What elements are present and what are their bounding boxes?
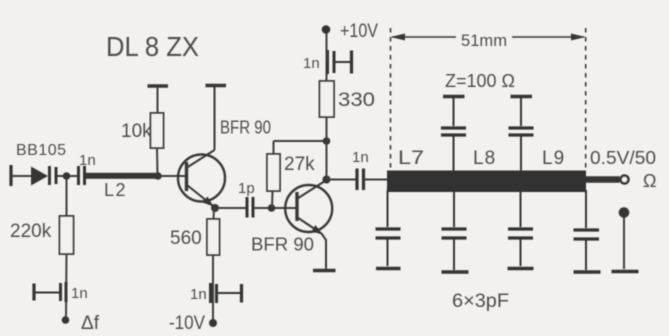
output lead: [586, 176, 620, 183]
capacitor C 1n (coupling): [79, 166, 85, 185]
input terminal Δf RF in: [9, 165, 12, 186]
svg-text:560: 560: [170, 228, 202, 249]
node: diode / 220k / cap junction: [63, 172, 71, 180]
transistor Q2 BFR 90: [285, 180, 332, 269]
ground (lower cap 3): [508, 267, 534, 271]
terminal Δf: [62, 316, 70, 324]
inductor L2 (stripline): [86, 173, 157, 179]
node: 330 / 27k junction: [323, 137, 331, 145]
wire: [254, 207, 297, 209]
svg-text:DL 8 ZX: DL 8 ZX: [106, 31, 199, 62]
ground (output return): [612, 270, 639, 274]
svg-text:51mm: 51mm: [461, 31, 507, 50]
svg-text:BFR 90: BFR 90: [251, 235, 314, 255]
svg-text:6×3pF: 6×3pF: [452, 291, 509, 312]
transistor Q1 BFR 90: [178, 87, 225, 207]
svg-text:0.5V/50: 0.5V/50: [590, 148, 656, 168]
svg-text:1n: 1n: [79, 152, 96, 169]
svg-text:L7: L7: [398, 148, 424, 169]
varactor diode BB105: [31, 166, 56, 186]
capacitor 3pF (upper, L7/L8 node): [441, 97, 466, 173]
svg-text:-10V: -10V: [169, 313, 205, 334]
capacitor 1n (Δf filter): [34, 282, 66, 302]
ground (Q2 emitter): [313, 269, 336, 272]
resistor 560: [207, 208, 220, 319]
svg-text:1n: 1n: [71, 285, 88, 302]
wire: [326, 33, 328, 62]
capacitor 3pF (lower 3): [508, 190, 533, 266]
svg-text:BB105: BB105: [16, 142, 67, 159]
capacitor 3pF (lower 2): [442, 190, 467, 270]
ground (lower cap 2): [442, 270, 469, 274]
dimension extension line (dashed, left): [390, 28, 392, 171]
svg-text:1n: 1n: [352, 149, 369, 166]
capacitor 3pF (lower 4): [574, 190, 600, 270]
svg-text:10k: 10k: [121, 121, 152, 142]
svg-text:L2: L2: [104, 180, 127, 200]
svg-text:1n: 1n: [190, 286, 207, 303]
terminal +10V: [322, 25, 331, 34]
svg-text:Δf: Δf: [81, 313, 100, 334]
capacitor 1p (interstage): [247, 197, 253, 218]
capacitor 1n (+10V decoupling): [328, 50, 352, 74]
node: base Q2 / 27k: [268, 204, 276, 212]
output return terminal (dot): [619, 207, 630, 218]
dimension arrow 51mm: [391, 34, 586, 41]
resistor 330: [320, 62, 335, 141]
svg-text:+10V: +10V: [340, 21, 378, 42]
svg-text:Ω: Ω: [643, 171, 656, 191]
wire: [215, 207, 247, 209]
capacitor 3pF (lower 1): [376, 190, 401, 266]
svg-text:1p: 1p: [238, 180, 255, 197]
resistor 10k: [151, 87, 164, 174]
svg-text:BFR 90: BFR 90: [220, 118, 271, 138]
wire base Q1: [158, 175, 187, 177]
output terminal (open circle): [621, 176, 629, 184]
svg-text:L9: L9: [542, 148, 565, 169]
capacitor 1n (-10V filter): [211, 283, 242, 303]
transmission line L7 L8 L9 (stripline): [387, 171, 586, 193]
terminal -10V: [209, 319, 217, 327]
svg-text:220k: 220k: [10, 221, 52, 242]
svg-text:L8: L8: [473, 148, 496, 169]
svg-text:330: 330: [338, 90, 375, 111]
svg-text:Z=100 Ω: Z=100 Ω: [445, 71, 515, 91]
ground (lower cap 4): [574, 270, 601, 274]
node: collector Q2: [323, 176, 331, 184]
capacitor 3pF (upper, L8/L9 node): [509, 97, 534, 173]
resistor 220k: [60, 178, 74, 317]
svg-text:27k: 27k: [284, 154, 315, 175]
node: emitter Q1 / 560 / 1p: [211, 204, 219, 212]
supply rail bar (Q1 collector): [206, 84, 227, 87]
dimension extension line (dashed, right): [585, 28, 587, 171]
wire: [623, 216, 625, 269]
svg-text:1n: 1n: [303, 55, 320, 72]
wire: [326, 141, 328, 180]
node: base / 10k junction: [154, 172, 162, 180]
ground (lower cap 1): [376, 267, 401, 271]
resistor 27k (feedback): [267, 141, 327, 208]
capacitor 1n (output coupling): [357, 169, 364, 191]
wire: [365, 179, 389, 181]
supply rail bar (10k top): [148, 84, 169, 87]
wire: [327, 179, 357, 181]
wire: [12, 175, 32, 177]
wire: [57, 175, 78, 177]
